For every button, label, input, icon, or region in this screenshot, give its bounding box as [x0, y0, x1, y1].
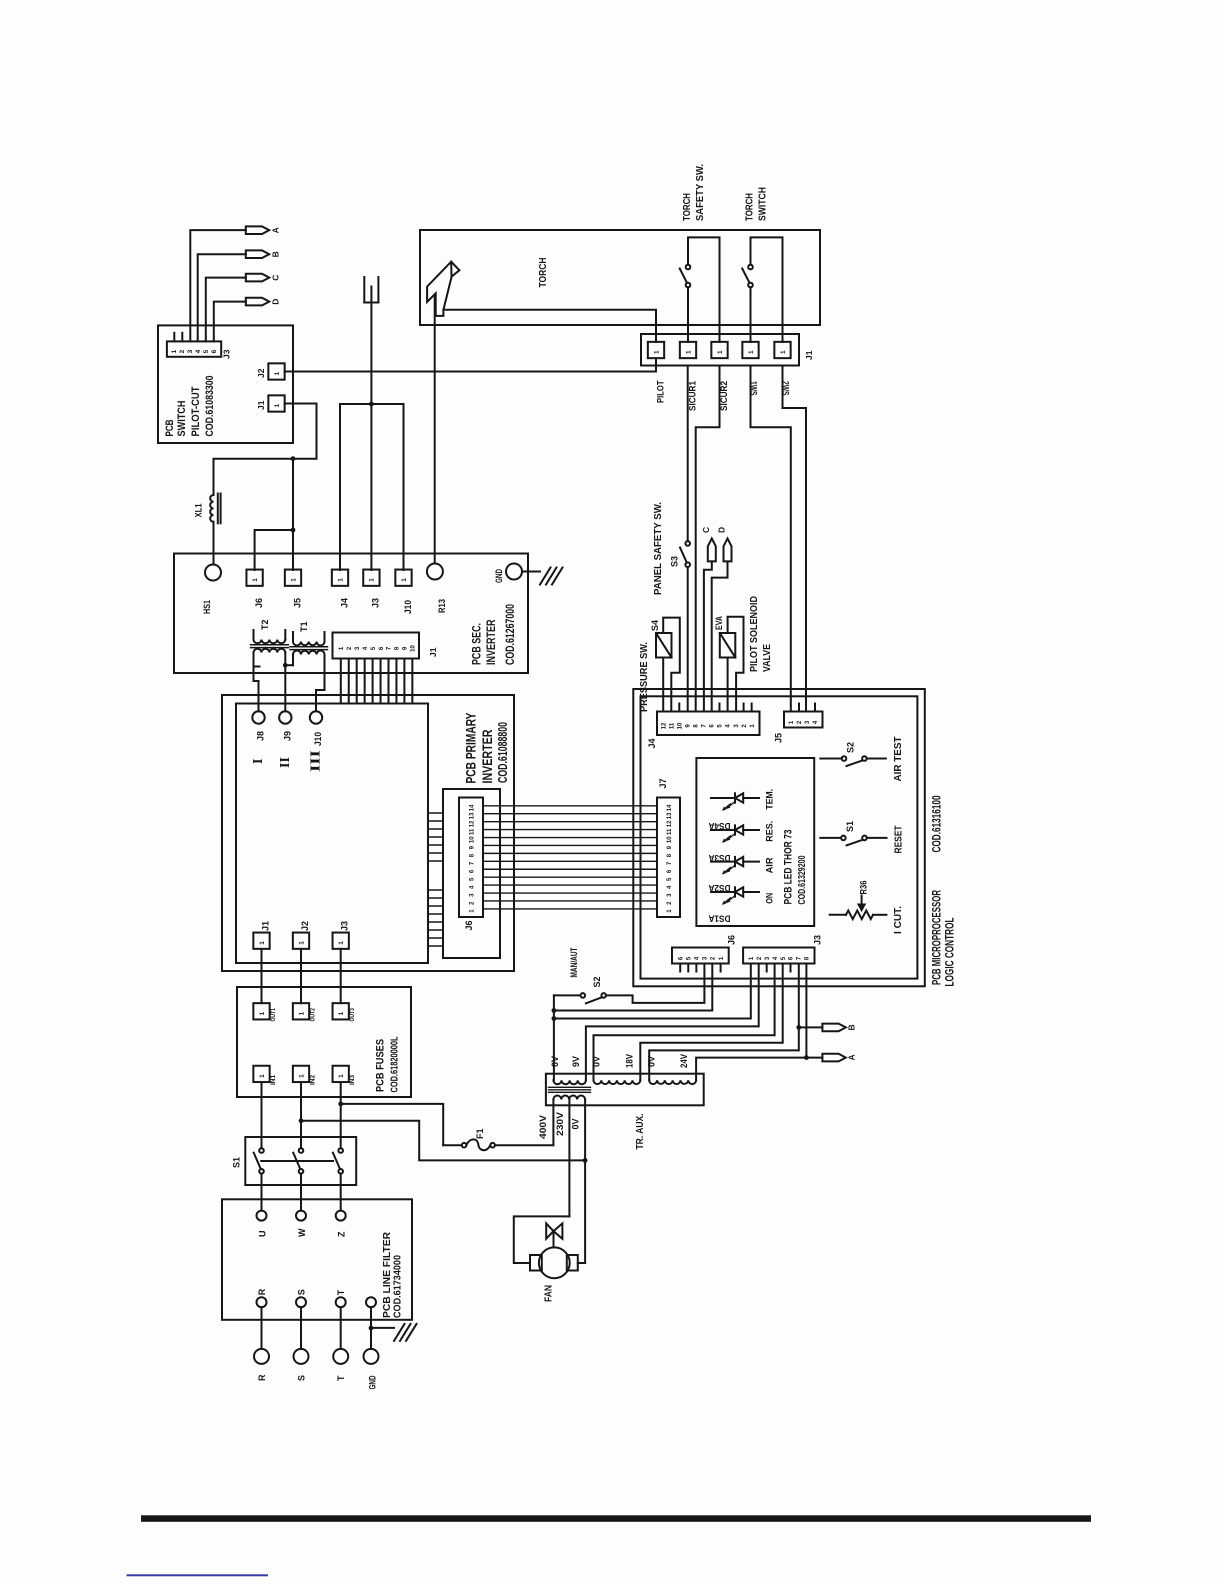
svg-text:AIR TEST: AIR TEST	[893, 737, 904, 782]
svg-text:PCB: PCB	[164, 419, 176, 436]
pilot solenoid valve EVA	[720, 633, 736, 658]
switch S2 MAN/AUT	[581, 993, 586, 998]
svg-text:GND: GND	[494, 569, 504, 583]
wire GND to earth	[522, 571, 540, 573]
wire safety sw bottom to SICUR1 pin	[687, 287, 689, 342]
svg-text:4: 4	[470, 885, 476, 889]
svg-text:9: 9	[403, 646, 409, 650]
node 0V junction 2	[552, 1016, 557, 1021]
J4 pin 1 stub	[751, 704, 753, 712]
svg-text:OUT3: OUT3	[349, 1008, 356, 1022]
svg-text:TORCH: TORCH	[682, 193, 693, 221]
J3 pin2 stub	[181, 333, 183, 342]
svg-text:6: 6	[379, 646, 385, 650]
micro board outer outline	[633, 689, 925, 986]
arrow A	[822, 1054, 845, 1062]
svg-text:6: 6	[710, 724, 716, 728]
svg-text:XL1: XL1	[194, 504, 204, 518]
TR AUX outline	[546, 1074, 704, 1106]
svg-text:D: D	[271, 299, 281, 305]
svg-text:J8: J8	[256, 731, 266, 741]
svg-text:IN1: IN1	[270, 1075, 277, 1085]
connector J6 (primary, 14 pin)	[443, 789, 500, 958]
wire S2 to J6 pin3	[606, 964, 705, 1003]
svg-text:400V: 400V	[538, 1114, 549, 1139]
fan valve stem	[553, 1231, 555, 1247]
node electrode junction	[369, 402, 374, 407]
svg-text:SWITCH: SWITCH	[176, 400, 188, 436]
wire T1 to J10 (primary)	[316, 690, 325, 711]
R36 wiper stem	[861, 896, 863, 906]
wire J1 to fuses board	[261, 949, 263, 1003]
ribbon wire pin 6	[483, 868, 657, 870]
arrow C	[246, 274, 269, 282]
board edge stub ticks	[428, 812, 443, 814]
terminal R (filter)	[257, 1297, 267, 1307]
svg-text:SAFETY SW.: SAFETY SW.	[695, 164, 706, 221]
wire IN3 to S1 pole3	[340, 1082, 342, 1148]
svg-text:18V: 18V	[625, 1054, 635, 1068]
svg-text:3: 3	[667, 893, 673, 897]
svg-text:13: 13	[470, 812, 476, 819]
arrow B	[246, 250, 269, 258]
S3 blade	[680, 548, 687, 563]
terminal GND (filter)	[366, 1297, 376, 1307]
svg-text:3: 3	[187, 349, 194, 353]
wire J3 pin2 to 9V tap	[586, 964, 759, 1081]
wire IN1 to S1 pole1	[261, 1082, 263, 1148]
arrow A	[246, 226, 269, 234]
svg-text:1: 1	[789, 720, 795, 724]
svg-text:9V: 9V	[571, 1056, 581, 1067]
svg-text:DS2A: DS2A	[708, 883, 730, 893]
svg-text:INVERTER: INVERTER	[484, 619, 498, 665]
svg-text:T: T	[336, 1375, 346, 1381]
svg-text:1: 1	[298, 1074, 305, 1078]
switch S1 RESET	[820, 837, 841, 839]
wire J1 pin 3 to primary	[356, 659, 358, 704]
wire J6 pin2 to 0V line	[554, 964, 712, 1011]
svg-text:1: 1	[290, 578, 297, 582]
svg-text:4: 4	[667, 885, 673, 889]
connector J1 (pilot board)	[268, 395, 284, 411]
connector J1 (sec inverter, 10 pin)	[333, 633, 420, 659]
svg-text:1: 1	[685, 350, 692, 354]
svg-text:S: S	[296, 1289, 306, 1295]
transformer T1	[292, 632, 294, 642]
micro board inner outline	[641, 696, 918, 978]
svg-text:PANEL SAFETY SW.: PANEL SAFETY SW.	[653, 502, 664, 595]
svg-text:9: 9	[470, 845, 476, 849]
wire up to PILOT pin	[655, 358, 657, 371]
svg-text:C: C	[271, 275, 281, 281]
terminal J9	[279, 711, 291, 723]
blade	[680, 269, 687, 283]
connector J4 (micro, 12 pin)	[657, 712, 760, 736]
svg-text:PCB LED THOR 73: PCB LED THOR 73	[783, 830, 795, 905]
svg-text:DS4A: DS4A	[708, 821, 730, 831]
svg-text:6: 6	[470, 869, 476, 873]
svg-text:1: 1	[259, 1011, 266, 1015]
svg-text:11: 11	[669, 722, 675, 729]
svg-text:PCB SEC.: PCB SEC.	[470, 623, 484, 665]
LED A3SD (RES.)	[711, 829, 735, 831]
ground symbol (line filter)	[394, 1324, 405, 1341]
wire 230V tap down	[568, 1100, 570, 1217]
svg-text:0V: 0V	[647, 1056, 657, 1067]
node IN2 branch	[299, 1118, 304, 1123]
svg-text:0V: 0V	[592, 1056, 602, 1067]
PCB PRIMARY INVERTER inner outline	[236, 704, 428, 964]
ribbon wire pin 4	[483, 884, 657, 886]
wire J3 pin1 to 0V line	[554, 964, 751, 1019]
EVA diagonal	[720, 633, 736, 658]
svg-text:6: 6	[789, 956, 795, 960]
ribbon wire pin 13	[483, 813, 657, 815]
transformer T2	[253, 630, 255, 640]
svg-text:S4: S4	[650, 620, 660, 631]
wire to arrow A	[806, 1057, 822, 1059]
PCB LED board outline	[696, 758, 814, 926]
wire J1 pin 9 to primary	[403, 659, 405, 704]
wire IN2 to S1 pole2	[300, 1082, 302, 1148]
TR AUX core line 1	[549, 1086, 591, 1088]
XL1 core line 2	[220, 494, 222, 524]
svg-text:3: 3	[355, 646, 361, 650]
svg-text:OUT1: OUT1	[270, 1008, 277, 1022]
connector J6 (sec inverter)	[246, 570, 262, 586]
PCB LINE FILTER outline	[222, 1199, 412, 1320]
svg-text:2: 2	[711, 956, 717, 960]
wire SW1 to J5 pin1	[751, 366, 791, 712]
connector OUT1	[253, 1003, 269, 1019]
svg-text:B: B	[847, 1024, 857, 1030]
svg-text:R13: R13	[437, 599, 447, 613]
PCB SEC INVERTER board outline	[174, 554, 528, 674]
node J6 branch junction	[291, 528, 296, 533]
T2 polarity dash	[256, 666, 260, 668]
wire J1 pin 5 to primary	[372, 659, 374, 704]
input terminal S	[294, 1349, 309, 1364]
torch safety switch	[686, 265, 691, 270]
S2 man/aut blade	[586, 997, 602, 1003]
J6 pin 5 stub	[687, 964, 689, 972]
ribbon wire pin 7	[483, 860, 657, 862]
ribbon wire pin 12	[483, 821, 657, 823]
svg-text:2: 2	[667, 901, 673, 905]
svg-text:F1: F1	[475, 1128, 485, 1139]
wire C to J4 pin7	[704, 561, 712, 711]
torch gun inner line	[450, 262, 452, 277]
node XL1/J1/J5 junction	[291, 456, 296, 461]
wire J1 pin 1 to primary	[340, 659, 342, 704]
svg-text:1: 1	[338, 1011, 345, 1015]
svg-text:1: 1	[369, 578, 376, 582]
svg-text:B: B	[271, 251, 281, 257]
svg-text:12: 12	[661, 722, 667, 729]
svg-text:5: 5	[203, 349, 210, 353]
ribbon wire pin 14	[483, 805, 657, 807]
svg-text:3: 3	[765, 956, 771, 960]
svg-text:J2: J2	[256, 368, 266, 378]
wire J6 pin branch	[255, 530, 293, 570]
wire SICUR1 to S3	[687, 366, 689, 542]
svg-text:RESET: RESET	[894, 826, 905, 854]
svg-text:3: 3	[470, 893, 476, 897]
node IN3 branch	[338, 1102, 343, 1107]
TR AUX core line 3	[549, 1091, 591, 1093]
ribbon wire pin 5	[483, 876, 657, 878]
svg-text:PCB MICROPROCESSOR: PCB MICROPROCESSOR	[930, 890, 944, 985]
ribbon wire pin 1	[483, 908, 657, 910]
svg-text:T1: T1	[299, 621, 309, 632]
svg-text:A: A	[271, 227, 281, 233]
connector J3 (sec inverter)	[363, 570, 379, 586]
svg-text:J4: J4	[339, 598, 349, 608]
wire to J4 pin (sec)	[339, 404, 341, 570]
connector J6 (micro bottom, 6 pin)	[672, 948, 729, 964]
svg-text:TR. AUX.: TR. AUX.	[635, 1113, 646, 1149]
svg-text:J3: J3	[371, 598, 381, 608]
svg-text:2: 2	[470, 901, 476, 905]
svg-text:SWITCH: SWITCH	[758, 187, 769, 221]
wire EVA top loop to J4 pin3	[728, 617, 744, 712]
wire torch sw bottom to SW1 pin	[750, 287, 752, 342]
svg-text:COD.61329200: COD.61329200	[797, 855, 808, 904]
terminal J8	[252, 711, 264, 723]
wire S3 to J4 pin9	[687, 567, 689, 712]
S1 tie bar	[261, 1160, 333, 1162]
svg-text:10: 10	[677, 722, 683, 729]
svg-text:8: 8	[805, 956, 811, 960]
arrow C	[708, 539, 716, 562]
svg-text:T2: T2	[260, 619, 270, 630]
svg-text:10: 10	[667, 836, 673, 843]
connector J3 (micro bottom, 8 pin)	[743, 948, 814, 964]
fan left tab	[530, 1255, 542, 1271]
wire to J10 pin (sec)	[403, 404, 405, 570]
wire J2 to torch J1 pin1 (PILOT)	[285, 371, 656, 373]
connector OUT2	[293, 1003, 309, 1019]
connector J4 (sec inverter)	[332, 570, 348, 586]
terminal U	[257, 1211, 267, 1221]
fan motor circle	[539, 1247, 570, 1278]
wire torch gun to R13	[434, 295, 436, 564]
wire 0V primary to S2	[553, 995, 555, 1080]
svg-text:TORCH: TORCH	[538, 258, 549, 288]
svg-text:2: 2	[347, 646, 353, 650]
wire J3 pin to arrow C	[206, 278, 246, 342]
TR AUX 18V winding	[594, 1080, 641, 1084]
svg-text:1: 1	[750, 724, 756, 728]
svg-text:7: 7	[470, 861, 476, 865]
node B branch	[796, 1025, 801, 1030]
ribbon wire pin 2	[483, 900, 657, 902]
wire J1 pin 8 to primary	[395, 659, 397, 704]
torch switch	[748, 265, 753, 270]
ribbon wire pin 10	[483, 837, 657, 839]
svg-text:J1: J1	[256, 400, 266, 410]
wire fan right tab	[578, 1262, 585, 1264]
svg-text:1: 1	[780, 350, 787, 354]
J4 pin 10 stub	[678, 704, 680, 712]
connector J2 (pilot board)	[268, 363, 284, 379]
svg-text:DS1A: DS1A	[708, 913, 730, 923]
wire J2 to fuses board	[300, 949, 302, 1003]
connector J3 (primary)	[333, 933, 349, 949]
svg-text:S1: S1	[232, 1157, 242, 1168]
svg-text:II: II	[278, 757, 293, 768]
svg-text:11: 11	[667, 828, 673, 835]
svg-text:J1: J1	[260, 921, 270, 931]
XL1 coil	[210, 495, 213, 522]
svg-text:COD.61316100: COD.61316100	[930, 795, 944, 852]
TORCH box	[420, 230, 820, 325]
svg-text:1: 1	[653, 350, 660, 354]
svg-text:2: 2	[179, 349, 186, 353]
svg-text:J9: J9	[282, 731, 292, 741]
XL1 core line 1	[217, 494, 219, 524]
LED A1SD (ON)	[711, 891, 735, 893]
J6 pin 4 stub	[695, 964, 697, 972]
svg-text:PCB FUSES: PCB FUSES	[375, 1039, 387, 1092]
svg-text:PCB PRIMARY: PCB PRIMARY	[462, 712, 478, 783]
svg-text:LOGIC CONTROL: LOGIC CONTROL	[943, 918, 957, 987]
switch S2 AIR TEST	[820, 758, 841, 760]
svg-text:1: 1	[259, 1074, 266, 1078]
svg-text:J6: J6	[464, 920, 474, 930]
J3 pin1 stub	[173, 333, 175, 342]
svg-text:6: 6	[678, 956, 684, 960]
svg-text:1: 1	[337, 578, 344, 582]
svg-text:J10: J10	[403, 600, 413, 614]
wire J1 pin 6 to primary	[380, 659, 382, 704]
fan valve right triangle	[554, 1223, 563, 1238]
arrow B	[822, 1024, 845, 1032]
svg-text:12: 12	[667, 820, 673, 827]
torch gun symbol	[427, 262, 459, 316]
svg-text:R: R	[257, 1374, 267, 1381]
terminal Z	[336, 1211, 346, 1221]
svg-text:AIR: AIR	[765, 857, 775, 874]
svg-text:VALVE: VALVE	[762, 644, 773, 672]
terminal W	[296, 1211, 306, 1221]
wire J3 pin to arrow B	[198, 254, 246, 341]
wire safety sw top loop to SICUR2 pin	[688, 237, 720, 342]
svg-text:6: 6	[667, 869, 673, 873]
J4 pin 5 stub	[718, 704, 720, 712]
wire J1 pin 7 to primary	[388, 659, 390, 704]
svg-text:J3: J3	[222, 349, 232, 359]
svg-text:3: 3	[805, 720, 811, 724]
blade	[742, 269, 749, 283]
wire J3 to fuses board	[340, 949, 342, 1003]
svg-text:4: 4	[363, 646, 369, 650]
J3 pin 3 stub	[766, 964, 768, 972]
svg-text:III: III	[309, 750, 324, 772]
node GND branch	[369, 1326, 374, 1331]
wire T to input	[340, 1307, 342, 1349]
wire J1 pin 2 to primary	[348, 659, 350, 704]
connector OUT3	[333, 1003, 349, 1019]
svg-text:5: 5	[718, 724, 724, 728]
svg-text:MAN/AUT: MAN/AUT	[569, 947, 579, 977]
wire D to J4 pin6	[712, 561, 728, 711]
svg-text:S2: S2	[846, 742, 856, 753]
wire S1 to line filter	[300, 1174, 302, 1211]
fan valve left triangle	[546, 1223, 553, 1238]
svg-text:8: 8	[667, 853, 673, 857]
wire S4 bottom to J4 pin12	[662, 658, 664, 712]
svg-text:EVA: EVA	[714, 616, 724, 630]
arrow D	[246, 298, 269, 306]
J6 pin 6 stub	[679, 964, 681, 972]
svg-text:J7: J7	[658, 778, 668, 788]
svg-text:5: 5	[371, 646, 377, 650]
svg-text:SICUR1: SICUR1	[688, 381, 698, 411]
svg-text:5: 5	[781, 956, 787, 960]
F1 element	[466, 1139, 490, 1150]
S1 box	[245, 1137, 356, 1185]
svg-text:3: 3	[703, 956, 709, 960]
svg-text:J5: J5	[292, 598, 302, 608]
LED A2SD (AIR)	[711, 861, 735, 863]
wire GND filter to input	[370, 1307, 372, 1349]
svg-text:DS3A: DS3A	[708, 853, 730, 863]
PCB FUSES outline	[237, 987, 411, 1097]
svg-text:9: 9	[667, 845, 673, 849]
node T2/T1 junction	[283, 663, 288, 668]
wire J3 pin5 to 18V tap	[640, 964, 782, 1081]
svg-text:J4: J4	[647, 738, 657, 748]
footer rule	[141, 1515, 1091, 1522]
svg-text:9: 9	[686, 724, 692, 728]
svg-text:1: 1	[298, 1011, 305, 1015]
J6 pin 1 stub	[720, 964, 722, 972]
svg-text:J3: J3	[340, 921, 350, 931]
svg-text:1: 1	[339, 646, 345, 650]
svg-text:1: 1	[171, 349, 178, 353]
svg-text:C: C	[701, 527, 711, 533]
svg-text:S3: S3	[670, 556, 680, 567]
svg-text:J10: J10	[313, 732, 323, 746]
wire J3 pin7 to 0V tap (24V winding)	[649, 964, 799, 1081]
svg-text:14: 14	[667, 804, 673, 811]
svg-text:7: 7	[702, 724, 708, 728]
terminal GND (sec)	[506, 564, 522, 580]
svg-text:T: T	[336, 1289, 346, 1295]
svg-text:1: 1	[298, 941, 305, 945]
connector J3 (pilot board)	[167, 341, 221, 356]
svg-text:2: 2	[797, 720, 803, 724]
svg-text:5: 5	[686, 956, 692, 960]
fuse F1	[443, 1144, 462, 1146]
ribbon wire pin 9	[483, 844, 657, 846]
svg-text:TORCH: TORCH	[745, 193, 756, 221]
node A branch	[804, 1055, 809, 1060]
S2 blade	[847, 761, 863, 767]
wire S1 to line filter	[261, 1174, 263, 1211]
svg-text:12: 12	[470, 820, 476, 827]
TR AUX bottom winding (400/230/0V)	[553, 1096, 585, 1100]
S1 blade	[847, 840, 863, 846]
svg-text:A: A	[847, 1054, 857, 1060]
node 0V junction 1	[552, 1008, 557, 1013]
connector J10 (sec inverter)	[395, 570, 411, 586]
wire XL1 bottom to HS1	[213, 522, 215, 565]
svg-text:13: 13	[667, 812, 673, 819]
svg-text:1: 1	[338, 1074, 345, 1078]
